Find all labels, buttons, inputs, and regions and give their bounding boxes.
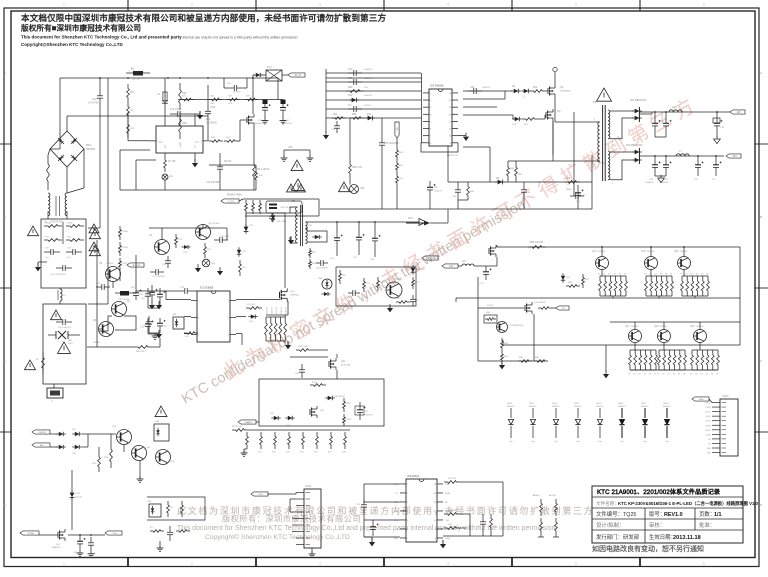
wire bus345 <box>503 340 740 345</box>
wire primary gnd bus <box>320 208 592 210</box>
label IC3 left pin CT <box>395 529 398 531</box>
diode D6 <box>511 85 521 93</box>
svg-text:F1611: F1611 <box>487 305 494 307</box>
resistor R67 <box>309 248 317 258</box>
ground IC1 below <box>192 153 198 167</box>
capacitor C36s <box>180 287 192 294</box>
svg-text:IC1: IC1 <box>206 117 211 121</box>
ground C47 <box>280 118 287 124</box>
capacitor C13 ic1 top <box>170 109 188 117</box>
capacitor C47 bulk <box>280 100 292 126</box>
label PGM-C <box>227 194 242 197</box>
capacitor C26b <box>452 182 461 200</box>
warning triangle pfc 1 <box>291 160 303 171</box>
svg-text:文件编号：TQ25: 文件编号：TQ25 <box>596 510 636 518</box>
svg-text:发行部门：研发部: 发行部门：研发部 <box>596 533 640 541</box>
flag 24V out <box>726 154 741 158</box>
resistor R56 <box>350 113 364 119</box>
wire stby drain <box>246 213 285 288</box>
resistor row RP8 <box>342 432 347 454</box>
op-amp IC3 quad comparator <box>400 475 443 542</box>
resistor R41 sense <box>396 160 404 173</box>
flag ADJ <box>32 443 50 447</box>
resistor R123 <box>176 530 190 533</box>
resistor R71b <box>363 278 371 292</box>
transistor Q17 <box>625 322 642 343</box>
svg-text:KBU806: KBU806 <box>86 148 96 151</box>
svg-text:C18: C18 <box>92 97 97 101</box>
svg-text:LED5: LED5 <box>596 403 602 405</box>
capacitor C30o <box>713 112 725 137</box>
svg-text:ENA: ENA <box>394 510 399 513</box>
svg-text:本文档仅限中国深圳市康冠技术有限公司和被呈递方内部使用，未经: 本文档仅限中国深圳市康冠技术有限公司和被呈递方内部使用，未经书面许可请勿扩散到第… <box>21 12 386 23</box>
capacitor C28o <box>645 156 661 184</box>
capacitor C34 <box>575 185 586 203</box>
bottom watermark text <box>177 505 594 541</box>
wire vert x100 <box>88 116 100 228</box>
svg-text:R58 1.9K: R58 1.9K <box>352 166 362 169</box>
wire rail2 gnd <box>655 175 666 183</box>
capacitor C24 <box>206 153 223 190</box>
capacitor C22 <box>463 86 512 94</box>
ferrite bead L5B <box>350 178 365 194</box>
capacitor CX2 <box>66 248 82 260</box>
svg-text:R70B: R70B <box>122 247 128 249</box>
transistor Q8 <box>93 320 114 344</box>
resistor row RP1 <box>244 432 249 454</box>
svg-text:AC250V: AC250V <box>133 78 141 81</box>
svg-text:文件名称：: 文件名称： <box>596 500 619 507</box>
svg-text:R70A: R70A <box>122 230 128 233</box>
capacitor C30s2 <box>56 319 72 329</box>
capacitor C16 <box>326 77 421 85</box>
resistor row RP5 <box>300 432 305 454</box>
wire input left <box>50 78 60 149</box>
label IC3 right pin FVA3 <box>445 537 451 540</box>
svg-text:RF76 4.7K: RF76 4.7K <box>232 426 243 428</box>
svg-text:C10 0.22uF/275V: C10 0.22uF/275V <box>50 274 66 276</box>
svg-text:AUX10: AUX10 <box>533 494 540 497</box>
transistor Q7 <box>112 301 131 317</box>
wire snubber top <box>243 198 319 200</box>
svg-text:R6 220: R6 220 <box>224 161 232 163</box>
warning triangle surge 1 <box>51 310 62 320</box>
wire t2 prim <box>290 207 298 243</box>
wire pson verts <box>99 434 124 452</box>
capacitor C50r <box>477 514 486 536</box>
svg-text:0.47/275V: 0.47/275V <box>88 101 99 104</box>
capacitor C78 <box>356 500 367 512</box>
svg-text:U8A: U8A <box>318 277 323 280</box>
label IC3 right pin FN <box>445 502 448 504</box>
wire q10 <box>266 301 288 315</box>
capacitor C42 <box>353 222 365 259</box>
svg-text:Q18: Q18 <box>654 325 659 328</box>
transformer T1 <box>593 100 614 185</box>
svg-text:版权所有■深圳市康冠技术有限公司: 版权所有■深圳市康冠技术有限公司 <box>21 23 141 33</box>
svg-text:SM4007: SM4007 <box>529 406 537 408</box>
svg-text:LED3-: LED3- <box>706 425 712 427</box>
wire bl left rail <box>477 277 479 361</box>
flag BL sm <box>556 306 569 310</box>
svg-text:FAN7930C: FAN7930C <box>206 121 218 124</box>
capacitor C68 <box>73 535 86 554</box>
capacitor C40o <box>651 111 661 137</box>
svg-text:LED1: LED1 <box>507 403 513 405</box>
svg-text:VCC: VCC <box>394 520 399 522</box>
capacitor C27s <box>150 269 165 278</box>
transistor Q5 <box>196 223 221 240</box>
svg-text:D16 1N4748: D16 1N4748 <box>118 299 130 301</box>
wire ic5 pins <box>166 291 280 345</box>
diode D8 <box>495 178 505 184</box>
resistor R70B <box>119 242 128 256</box>
ground C36 <box>262 118 269 124</box>
svg-text:R55B 1M: R55B 1M <box>271 307 273 315</box>
wire bottom joins <box>458 155 592 209</box>
diode D7 <box>521 89 531 99</box>
svg-text:如因电路改良有变动，恕不另行通知: 如因电路改良有变动，恕不另行通知 <box>592 544 704 553</box>
connector CON3 <box>705 396 738 456</box>
opto U3A <box>154 420 169 441</box>
svg-text:D21 MBR20100: D21 MBR20100 <box>626 145 643 147</box>
svg-text:This document for Shenzhen KTC: This document for Shenzhen KTC Technolog… <box>21 35 298 40</box>
capacitor C74 <box>479 266 492 285</box>
wire con4 wires <box>290 499 296 532</box>
svg-text:Q21: Q21 <box>341 361 346 363</box>
wire choke to grid <box>48 211 67 219</box>
svg-text:D9L 7601: D9L 7601 <box>277 221 287 223</box>
resistor R60 <box>467 182 475 200</box>
capacitor C70 <box>167 526 175 541</box>
svg-text:MOT: MOT <box>159 142 164 144</box>
connector J1 <box>47 384 63 403</box>
label IC3 left pin GND <box>394 538 399 540</box>
svg-text:10K: 10K <box>364 87 368 89</box>
wire pin3 row <box>463 106 497 108</box>
mosfet Q3 lower switch <box>545 109 561 155</box>
capacitor C26s <box>214 236 230 243</box>
svg-text:L3B: L3B <box>211 263 215 265</box>
transistor Q25 <box>156 450 175 465</box>
wire bridge top <box>66 116 68 131</box>
resistor row RP7 <box>328 432 333 454</box>
ground ic5 <box>149 301 160 339</box>
resistor R97 <box>582 274 590 288</box>
svg-text:Q13 64N06: Q13 64N06 <box>534 302 546 304</box>
diode DL6 led clamp <box>618 403 626 443</box>
transistor Q15 <box>641 247 658 270</box>
zener PC33 <box>70 470 83 530</box>
ground regulation <box>387 304 393 312</box>
resistor R10A <box>44 222 62 228</box>
svg-text:C38 470/35V: C38 470/35V <box>662 111 664 124</box>
resistor R99b <box>566 282 580 287</box>
capacitor C38o <box>662 111 672 137</box>
svg-text:12V: 12V <box>737 111 742 114</box>
svg-text:R55D 1M: R55D 1M <box>281 307 283 315</box>
resistor R6 row <box>209 161 264 190</box>
svg-text:R20 15K: R20 15K <box>448 478 457 480</box>
svg-text:R44: R44 <box>333 113 338 116</box>
resistor R26 <box>209 96 222 106</box>
svg-text:生效日期：: 生效日期： <box>649 533 676 541</box>
resistor R20c <box>444 524 460 529</box>
transistor Q9 <box>386 278 402 298</box>
wire gate2 row <box>463 114 513 116</box>
svg-text:1N4148: 1N4148 <box>364 95 372 97</box>
svg-text:A: A <box>760 71 762 75</box>
resistor R76b <box>239 260 247 276</box>
svg-text:47uF/50V: 47uF/50V <box>364 414 373 416</box>
svg-text:2N3904: 2N3904 <box>598 251 606 253</box>
diode D32 <box>285 416 294 427</box>
resistor R74b <box>204 243 212 258</box>
resistor R70A <box>119 226 128 240</box>
capacitor C10 <box>50 265 72 276</box>
svg-text:Q14: Q14 <box>592 250 597 253</box>
inductor L6 <box>669 106 682 112</box>
resistor R80 <box>484 312 497 323</box>
wire snubber bottom <box>245 199 319 216</box>
svg-text:ZD6 4.7V: ZD6 4.7V <box>416 269 425 271</box>
svg-text:C35: C35 <box>288 146 293 149</box>
resistor R120 <box>167 501 174 517</box>
arrow 5v out <box>419 219 426 226</box>
inductor L1 input <box>47 149 50 190</box>
resistor R44 <box>332 113 346 119</box>
capacitor C77 <box>144 285 162 309</box>
wire 24V rail <box>650 155 724 157</box>
svg-text:D12: D12 <box>367 113 372 116</box>
resistor R83b <box>501 338 509 351</box>
svg-text:D30 SR160: D30 SR160 <box>334 396 346 398</box>
warning triangle transformer <box>597 88 612 101</box>
resistor R12A <box>44 237 62 242</box>
resistor R121 <box>181 501 188 517</box>
resistor bundle RN3 <box>680 270 709 299</box>
ground t2 <box>288 236 294 244</box>
svg-text:L5B: L5B <box>360 187 365 190</box>
label IC3 left pin CV <box>395 493 398 495</box>
flag ON/OFF <box>32 430 50 434</box>
ground bl <box>499 361 505 369</box>
svg-text:LED8: LED8 <box>663 403 669 405</box>
diagonal watermark gray english <box>179 197 528 408</box>
wire 5v bus <box>305 221 419 223</box>
ferrite bead L3B <box>202 259 215 267</box>
wire stby verts <box>97 240 136 347</box>
svg-text:SM4007: SM4007 <box>552 406 560 408</box>
svg-text:R55E 1M: R55E 1M <box>286 307 288 315</box>
ground ic3 right <box>440 540 446 548</box>
mosfet Q2 main switch <box>546 67 572 97</box>
ground ic3 left <box>364 537 375 546</box>
svg-text:222/1KV: 222/1KV <box>233 92 241 94</box>
svg-text:C27 103/630V: C27 103/630V <box>152 276 165 278</box>
svg-text:KTC KP-230V&0016/D36-1 E-PL-LE: KTC KP-230V&0016/D36-1 E-PL-LED（二合一电源板）线… <box>618 500 759 507</box>
resistor R12B <box>66 237 84 242</box>
capacitor C63 <box>162 256 171 268</box>
capacitor C64 <box>141 288 151 302</box>
svg-text:COMP: COMP <box>180 141 182 148</box>
ground pson logic <box>137 461 144 483</box>
ground vcc <box>323 131 329 139</box>
regulation block frame <box>336 267 416 306</box>
resistor R86b <box>534 357 548 362</box>
resistor R20b <box>444 510 460 515</box>
diode DL5 led clamp <box>596 403 604 443</box>
resistor R32 snub <box>259 200 262 214</box>
capacitor C4 <box>326 104 421 112</box>
resistor row RP4 <box>286 432 291 454</box>
inductor L4 <box>58 288 66 304</box>
resistor R90 <box>538 307 556 310</box>
flag T vertical <box>395 122 399 147</box>
wire bl row <box>478 305 524 308</box>
svg-text:版号：: 版号： <box>649 510 665 518</box>
inductor L10 <box>458 261 497 266</box>
diode D36 <box>72 445 82 455</box>
svg-text:U3A: U3A <box>155 420 160 423</box>
resistor R83 <box>326 86 421 92</box>
warning triangle filter R2 <box>90 246 101 256</box>
diode D19 <box>322 292 331 296</box>
capacitor C86 <box>370 222 381 261</box>
wire snubber top <box>149 225 227 241</box>
wire prot top <box>290 356 328 358</box>
wire r55 top <box>284 315 286 317</box>
svg-text:C49 100/25V: C49 100/25V <box>316 268 328 270</box>
svg-text:R56: R56 <box>352 113 357 116</box>
op-amp IC1 PFC controller <box>150 117 218 153</box>
capacitor C60 <box>133 288 144 300</box>
svg-text:D20 MBR20100: D20 MBR20100 <box>630 100 647 102</box>
transistor Q16 <box>674 247 691 270</box>
svg-text:TXF070-048: TXF070-048 <box>50 222 63 224</box>
svg-text:2SA733: 2SA733 <box>106 262 114 265</box>
svg-text:PSA4: PSA4 <box>445 492 451 495</box>
svg-text:12V: 12V <box>449 265 454 268</box>
wire AC top bus <box>60 77 278 79</box>
capacitor C48 <box>347 290 360 299</box>
resistor R69 <box>339 270 347 284</box>
diode DL7 led clamp <box>641 403 649 443</box>
svg-text:审核：: 审核： <box>649 521 665 529</box>
warning triangle stby2 <box>89 242 99 251</box>
svg-text:5V-S: 5V-S <box>113 533 118 535</box>
resistor R66 <box>565 178 580 183</box>
svg-text:R52 470: R52 470 <box>247 304 256 306</box>
svg-text:R92: R92 <box>182 121 187 125</box>
capacitor C3 <box>427 181 443 209</box>
wire mid bus <box>456 298 740 302</box>
svg-text:1/1: 1/1 <box>714 512 722 518</box>
wire sec taps <box>610 111 634 180</box>
mosfet Q12 <box>525 302 546 314</box>
svg-text:LED+: LED+ <box>699 399 705 401</box>
ground array <box>603 370 609 378</box>
wire pin2 row <box>463 91 505 99</box>
mosfet Q26 <box>52 529 65 549</box>
wire boost row <box>178 99 283 101</box>
svg-text:NTC: NTC <box>408 217 413 220</box>
svg-text:B: B <box>4 215 6 219</box>
svg-text:LED1-: LED1- <box>706 407 712 409</box>
wire Q2 source <box>555 97 600 122</box>
flag 5VSB <box>20 531 39 535</box>
svg-text:LED4-: LED4- <box>706 434 712 436</box>
mosfet Q21 <box>329 354 351 379</box>
resistor bundle RN4 <box>628 343 657 376</box>
resistor R30 snub <box>245 200 248 214</box>
svg-text:AC_DET: AC_DET <box>133 264 142 267</box>
wire ic5 left <box>136 291 197 308</box>
label IC3 left pin ENA <box>394 510 399 513</box>
inductor L7 <box>676 150 689 156</box>
flag LNADJ <box>238 420 259 424</box>
wire IC1 top stubs <box>180 114 195 126</box>
flag PS-ON2 <box>422 256 438 260</box>
svg-text:R100 10K: R100 10K <box>298 346 308 348</box>
flag AC_DET <box>127 263 144 267</box>
svg-text:SM4007: SM4007 <box>596 406 604 408</box>
svg-text:22/50V: 22/50V <box>364 105 371 107</box>
diode DL3 led clamp <box>552 403 560 443</box>
svg-text:IC3 AP324: IC3 AP324 <box>407 475 420 478</box>
resistor R10B <box>66 223 84 228</box>
capacitor CX1 <box>44 248 60 260</box>
resistor R104 <box>232 426 248 431</box>
svg-text:B: B <box>760 215 762 219</box>
op-amp IC4 PWM controller <box>423 84 458 147</box>
label IC3 left pin VCC <box>394 520 399 522</box>
wire bridge bottom <box>66 167 68 176</box>
svg-text:R102: R102 <box>346 403 352 405</box>
wire ic4 ladder bundle <box>326 73 422 143</box>
wire 12V rail <box>640 111 730 113</box>
resistor R58 <box>349 118 363 178</box>
wire 5vsb rail <box>39 534 105 536</box>
label IC3 left pin CN4 <box>394 502 399 504</box>
diode D10 <box>326 94 421 102</box>
capacitor C33 <box>521 182 531 200</box>
svg-text:Q17: Q17 <box>625 325 630 328</box>
svg-text:版权所有：深圳市康冠技术有限公司: 版权所有：深圳市康冠技术有限公司 <box>222 514 361 524</box>
wire lower net <box>448 181 592 183</box>
label IC3 right pin CN1 <box>445 520 450 522</box>
svg-text:SM4007: SM4007 <box>663 406 671 408</box>
bridge rectifier BD1 <box>50 131 96 167</box>
ground r55 <box>285 341 291 349</box>
svg-text:Q19: Q19 <box>690 325 695 328</box>
ground snubber <box>217 267 223 275</box>
wire pwm fb row <box>463 147 490 182</box>
svg-text:0.1u: 0.1u <box>67 257 71 259</box>
resistor R20a <box>444 478 460 483</box>
ground con4 <box>309 548 316 557</box>
junction dots top bus <box>99 77 254 79</box>
flag 12V in <box>442 264 458 268</box>
label IC3 right pin FN2 <box>445 529 450 531</box>
label IC3 left pin OSP <box>394 484 399 486</box>
svg-text:ON/OFF: ON/OFF <box>38 432 46 434</box>
wire ps-on <box>87 346 97 348</box>
svg-text:Copyright@Shenzhen KTC Techn: Copyright@Shenzhen KTC Technology Co.,LT… <box>21 42 123 47</box>
filter box <box>41 219 86 288</box>
transistor Q4 <box>149 235 170 255</box>
svg-text:PC33: PC33 <box>75 493 81 495</box>
